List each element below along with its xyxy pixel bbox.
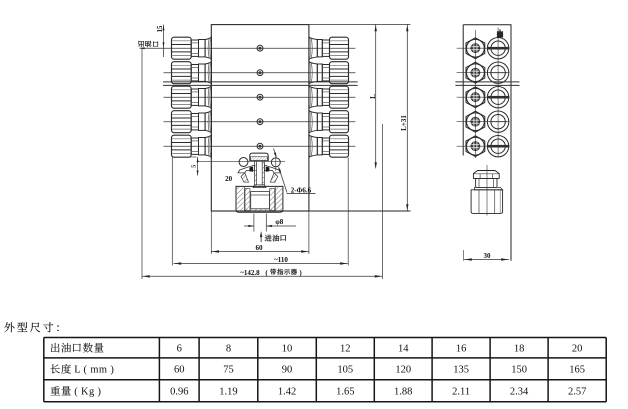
centerline row 3	[164, 96, 356, 98]
extension line left for ~142.8	[141, 49, 143, 280]
label 出油口 (outlet) rotated 180	[138, 41, 158, 47]
table row 2 header	[50, 364, 114, 375]
dimension L+31	[400, 25, 408, 211]
svg-text:30: 30	[484, 252, 492, 260]
mounting hole circle left (Φ6.6)	[239, 158, 248, 167]
svg-text:0.96: 0.96	[170, 387, 188, 398]
svg-text:165: 165	[569, 365, 585, 376]
outlet fitting row 2 right	[309, 62, 349, 84]
leader 2-Φ6.6	[274, 149, 316, 195]
side view vertical centerline port column	[497, 28, 499, 158]
svg-text:2.57: 2.57	[568, 387, 586, 398]
side view break lines	[455, 81, 519, 83]
outlet fitting row 2 left	[172, 62, 212, 84]
side view vertical centerline hex column	[474, 30, 476, 158]
side row 2 screw hex	[466, 62, 485, 83]
table row 3 header	[50, 386, 101, 397]
table row 2 values	[174, 365, 585, 376]
table row 1 values	[177, 343, 583, 354]
svg-text:2.34: 2.34	[510, 387, 529, 398]
side row 1 outlet port circles	[487, 38, 509, 59]
svg-text:1.42: 1.42	[278, 387, 296, 398]
svg-text:( Kg ): ( Kg )	[74, 386, 101, 397]
svg-text:105: 105	[337, 365, 353, 376]
centerline row 4	[164, 121, 356, 123]
break lines across front view	[163, 81, 358, 83]
svg-text:8: 8	[226, 343, 231, 354]
extension line left for ~110	[171, 158, 173, 266]
svg-text:2.11: 2.11	[452, 387, 470, 398]
side row 4 screw hex	[466, 111, 485, 132]
svg-text:L: L	[369, 94, 377, 99]
extension line left for 60	[210, 211, 212, 254]
side row 5 outlet port circles	[487, 136, 509, 157]
svg-text:90: 90	[282, 365, 293, 376]
outlet fitting row 4 right	[309, 111, 349, 133]
side row 4 outlet port circles	[487, 111, 508, 132]
svg-text:20: 20	[572, 343, 583, 354]
side fitting centerline	[486, 165, 488, 216]
svg-text:150: 150	[511, 365, 527, 376]
side inlet fitting collar	[475, 178, 503, 189]
svg-text:6: 6	[177, 343, 182, 354]
side row 1 centerline	[457, 47, 510, 49]
center screw row 4	[257, 119, 263, 125]
stem walls hatched	[253, 161, 266, 188]
svg-text:120: 120	[395, 365, 411, 376]
side row 3 screw hex	[466, 87, 485, 108]
dimension 30	[464, 250, 509, 261]
dimension ~142.8 (with indicator)	[142, 269, 383, 278]
svg-text:60: 60	[256, 244, 264, 252]
horizontal centerline through holes	[197, 160, 285, 162]
table row 3 values	[170, 387, 586, 398]
svg-text:~110: ~110	[274, 256, 288, 264]
svg-text:75: 75	[223, 365, 234, 376]
side row 1 screw hex	[466, 38, 485, 59]
extension line right for ~110	[347, 158, 349, 266]
centerline row 5	[164, 145, 356, 147]
dimension 15 (outlet pitch)	[157, 25, 165, 57]
svg-text:16: 16	[456, 343, 467, 354]
svg-text:~142.8: ~142.8	[240, 269, 260, 277]
side row 2 centerline	[457, 72, 510, 74]
side view right edge	[510, 25, 512, 261]
inlet nut body hatched	[236, 186, 283, 212]
svg-text:60: 60	[174, 365, 185, 376]
dimension L	[369, 25, 377, 169]
extension line right for 60	[308, 211, 310, 254]
svg-text:1.88: 1.88	[394, 387, 412, 398]
side inlet fitting top hex	[473, 171, 499, 179]
indicator symbol on top port	[497, 29, 503, 37]
label （带指示器）	[265, 269, 302, 277]
side row 5 centerline	[457, 145, 510, 147]
side inlet fitting nut	[471, 190, 503, 214]
center screw row 1	[257, 45, 263, 51]
label 进油口 (oil inlet)	[265, 235, 286, 242]
outlet fitting row 3 left	[172, 86, 212, 108]
outlet fitting row 3 right	[309, 86, 349, 108]
svg-text:1.19: 1.19	[219, 387, 237, 398]
outlet fitting row 4 left	[172, 111, 212, 133]
dimension Φ8	[244, 214, 296, 232]
outlet fitting row 5 right	[309, 135, 349, 157]
center screw row 2	[257, 70, 263, 76]
table row 1 header	[51, 343, 104, 353]
center screw row 5	[257, 143, 263, 149]
svg-text:1.65: 1.65	[336, 387, 354, 398]
svg-text:φ8: φ8	[275, 218, 283, 226]
side row 3 centerline	[457, 96, 510, 98]
svg-text:14: 14	[398, 343, 409, 354]
outlet fitting row 1 left	[172, 37, 212, 59]
outlet fitting row 5 left	[172, 135, 212, 157]
svg-text:18: 18	[514, 343, 525, 354]
centerline row 1	[140, 47, 356, 49]
svg-text:5: 5	[191, 165, 198, 168]
side row 2 outlet port circles	[487, 62, 508, 83]
side row 4 centerline	[457, 121, 510, 123]
dimension 5 (inlet offset)	[189, 157, 199, 176]
svg-text:20: 20	[225, 175, 233, 183]
table grid	[44, 338, 606, 402]
mounting hole circle right (Φ6.6)	[271, 155, 280, 172]
center screw row 3	[257, 94, 263, 100]
svg-text:12: 12	[340, 343, 351, 354]
inlet flow arrow	[260, 231, 262, 242]
side row 3 outlet port circles	[487, 87, 509, 108]
svg-text:L+31: L+31	[400, 115, 408, 131]
side view left edge	[462, 25, 464, 156]
top extension line to L/L+31 dims	[309, 23, 411, 25]
inlet fitting cross-section: cap/plug	[250, 153, 268, 161]
svg-text:135: 135	[453, 365, 469, 376]
right wing with section arrow	[264, 165, 280, 182]
dimension ~110	[174, 256, 348, 265]
dimension 60	[211, 244, 309, 253]
centerline row 2	[164, 72, 356, 74]
svg-text:15: 15	[157, 25, 164, 32]
left wing with section arrow	[238, 165, 254, 182]
side row 5 screw hex	[466, 136, 485, 157]
bottom edge extension line to L+31 dim	[309, 210, 411, 212]
table title 外型尺寸：	[4, 322, 58, 332]
side view top edge	[463, 24, 511, 26]
body bottom edge	[211, 210, 236, 212]
svg-text:10: 10	[282, 343, 293, 354]
outlet fitting row 1 right	[309, 37, 349, 59]
extension line right for ~142.8	[382, 124, 384, 279]
front view: manifold body outline	[211, 25, 309, 211]
svg-text:L ( mm ): L ( mm )	[74, 364, 114, 375]
